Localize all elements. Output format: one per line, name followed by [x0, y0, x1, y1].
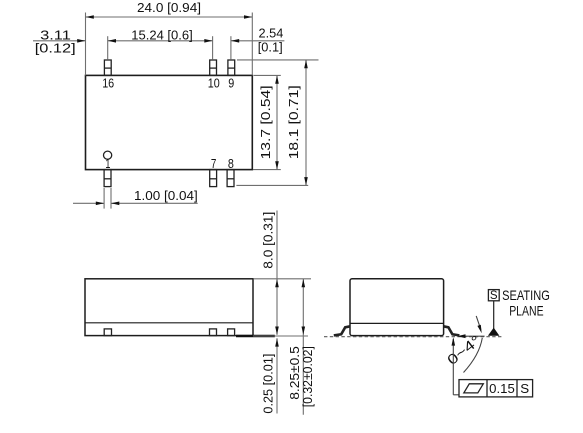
datum stem — [493, 301, 495, 329]
side view pin foot 1 — [104, 329, 111, 336]
pin 1 index circle — [104, 151, 112, 159]
svg-text:PLANE: PLANE — [509, 303, 543, 319]
pin 10 — [210, 60, 217, 75]
pin 8 — [227, 170, 234, 187]
svg-text:16: 16 — [102, 75, 114, 90]
svg-text:[0.12]: [0.12] — [35, 41, 76, 56]
dimension 15.24 [0.6] — [108, 36, 231, 60]
pin 9 — [228, 60, 235, 75]
feature control frame box — [459, 380, 533, 397]
dimension 3.11 [0.12] — [33, 40, 86, 42]
left gull-wing lead — [334, 326, 350, 335]
side view pin foot 8 — [228, 329, 235, 336]
svg-text:2.54: 2.54 — [259, 26, 284, 41]
datum filled triangle — [488, 328, 500, 336]
dimension 8.25±0.5 [0.32±0.02] — [253, 279, 308, 415]
svg-text:15.24 [0.6]: 15.24 [0.6] — [131, 27, 193, 42]
svg-text:S: S — [520, 381, 529, 396]
right gull-wing lead — [443, 326, 459, 335]
dimension 18.1 [0.71] — [236, 60, 318, 185]
dimension 2.54 [0.1] — [231, 40, 285, 42]
svg-text:18.1 [0.71]: 18.1 [0.71] — [286, 85, 301, 159]
dimension 8.0 [0.31] — [254, 211, 311, 335]
svg-text:7: 7 — [211, 156, 217, 171]
svg-text:SEATING: SEATING — [502, 287, 550, 303]
svg-text:10: 10 — [208, 75, 220, 90]
dimension 0.25 [0.01] — [276, 338, 278, 413]
side view pin foot 7 — [210, 329, 217, 336]
svg-text:9: 9 — [228, 75, 234, 90]
svg-text:S: S — [490, 290, 498, 302]
svg-text:8: 8 — [228, 156, 234, 171]
package body (top view) — [86, 75, 253, 169]
svg-text:1.00 [0.04]: 1.00 [0.04] — [134, 188, 198, 203]
seating plane dash-dot line — [324, 336, 503, 338]
package body (side view) — [85, 279, 253, 336]
svg-text:1: 1 — [105, 156, 110, 171]
svg-text:0.15: 0.15 — [489, 381, 515, 396]
dimension 24.0 [0.94] — [86, 13, 253, 76]
dimension 1.00 [0.04] — [73, 188, 198, 209]
package body (front view) — [350, 279, 444, 336]
svg-text:13.7 [0.54]: 13.7 [0.54] — [258, 85, 273, 159]
svg-text:8.0 [0.31]: 8.0 [0.31] — [261, 212, 276, 269]
svg-text:[0.1]: [0.1] — [258, 40, 283, 55]
pin 7 — [210, 170, 217, 187]
pin 16 — [104, 60, 111, 75]
flatness feature control frame leader — [453, 339, 459, 395]
svg-text:24.0 [0.94]: 24.0 [0.94] — [137, 0, 201, 15]
dimension 13.7 [0.54] — [253, 75, 281, 169]
svg-text:0.25 [0.01]: 0.25 [0.01] — [261, 354, 276, 414]
datum S box — [488, 290, 499, 301]
svg-text:[0.32±0.02]: [0.32±0.02] — [300, 346, 315, 407]
pin 1 — [104, 170, 111, 187]
seating plane thick line — [236, 335, 275, 338]
lead angle callout 0~4 deg — [460, 316, 485, 373]
